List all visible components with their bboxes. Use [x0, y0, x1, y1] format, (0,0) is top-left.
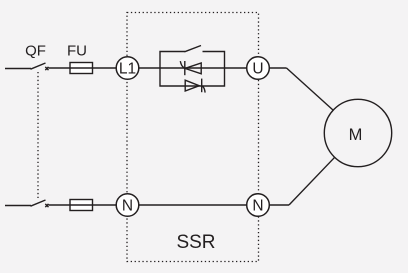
svg-text:L1: L1 [119, 61, 136, 78]
svg-text:N: N [122, 198, 133, 215]
svg-text:N: N [252, 198, 263, 215]
svg-text:U: U [252, 61, 263, 78]
svg-text:M: M [349, 126, 363, 144]
svg-text:QF: QF [25, 43, 46, 60]
svg-text:SSR: SSR [176, 232, 215, 253]
svg-text:FU: FU [67, 43, 87, 60]
